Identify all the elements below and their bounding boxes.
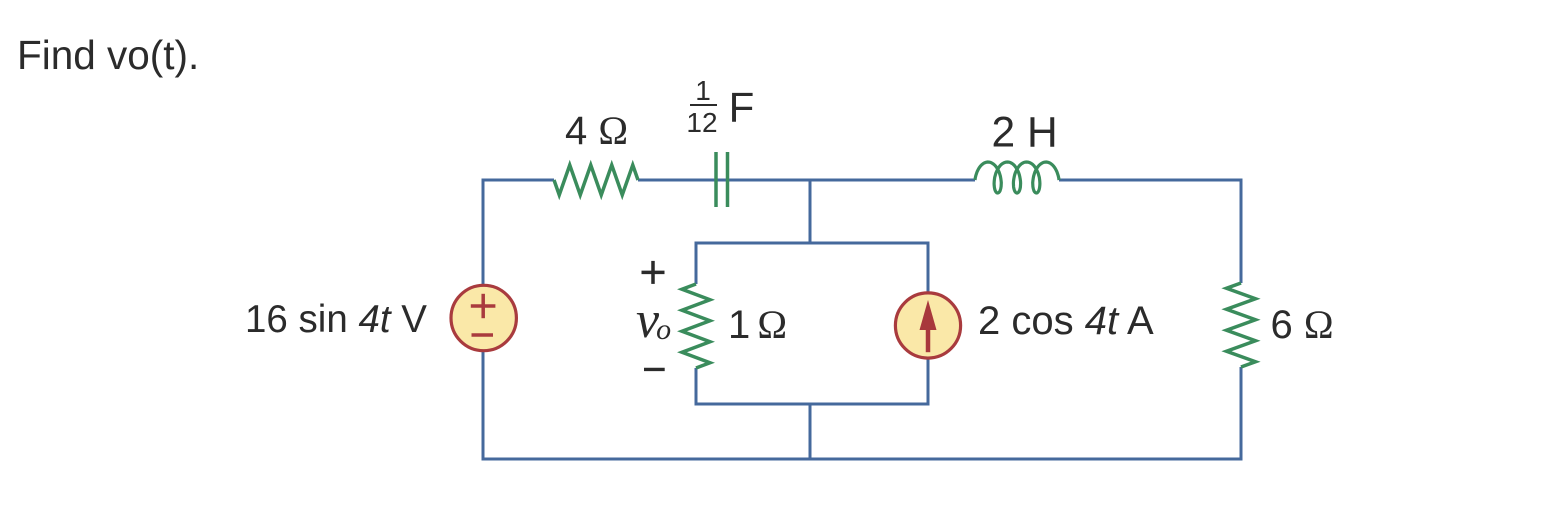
svg-text:2 H: 2 H [992, 110, 1058, 157]
svg-text:1: 1 [695, 75, 711, 106]
svg-text:1 Ω: 1 Ω [728, 302, 787, 347]
wire: junction drop from inner loop bottom to bottom rail [809, 404, 812, 461]
wire: top rail right segment (inductor to top-right corner) then right rail down to R3 top [1059, 180, 1241, 283]
svg-text:vo: vo [636, 292, 671, 349]
polarity minus sign for vo [644, 368, 665, 371]
wire: junction drop from top rail node to inner loop top [809, 179, 812, 244]
polarity plus sign for vo [642, 261, 665, 284]
svg-text:4 Ω: 4 Ω [565, 108, 628, 153]
current source I1 circle [895, 293, 960, 358]
resistor R3 6-ohm vertical zigzag on right rail [1227, 283, 1256, 367]
label "1/12 F" for capacitor C1 [686, 75, 754, 138]
svg-text:12: 12 [686, 107, 717, 138]
resistor R1 4-ohm zigzag on top rail [554, 165, 638, 195]
wire: outer loop left/bottom run (R1 left end, top-left corner, left rail through V1, bottom rail, bottom-right corner, up to R3 bottom) [483, 180, 1241, 459]
svg-text:F: F [729, 83, 755, 130]
wire: top rail middle segment (R1 to inductor, passes under capacitor C1) [638, 179, 975, 182]
wire: inner loop rectangle (gap on left edge for resistor R2) [696, 243, 928, 404]
svg-text:16 sin 4t V: 16 sin 4t V [245, 298, 427, 341]
svg-text:2 cos 4t A: 2 cos 4t A [978, 299, 1154, 343]
voltage source V1 plus sign [471, 294, 496, 318]
voltage source V1 circle [451, 285, 516, 350]
current source I1 arrow (pointing up) [920, 300, 937, 352]
voltage source V1 minus sign [472, 333, 494, 337]
capacitor C1 plates (1/12 F) [716, 152, 728, 207]
svg-text:6 Ω: 6 Ω [1271, 302, 1334, 347]
resistor R2 1-ohm vertical zigzag in inner loop [682, 284, 710, 368]
svg-text:Find vo(t).: Find vo(t). [17, 32, 199, 78]
inductor L1 coil on top rail [975, 162, 1059, 193]
